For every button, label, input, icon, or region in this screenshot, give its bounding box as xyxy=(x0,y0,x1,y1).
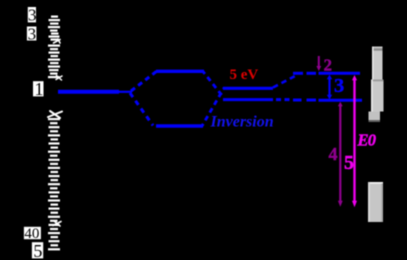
dashed split lower-left xyxy=(130,93,153,126)
svg-text:3: 3 xyxy=(28,24,36,43)
arrow 2->upper level (dark magenta) xyxy=(316,56,321,71)
svg-text:5 eV: 5 eV xyxy=(230,67,259,83)
gray slider bar top cap xyxy=(372,47,383,80)
dashed cross ascending xyxy=(202,88,224,126)
dashed cross descending xyxy=(203,72,224,99)
svg-text:E0: E0 xyxy=(357,130,376,149)
axis break mark small arrow y41 xyxy=(54,39,61,43)
svg-text:40: 40 xyxy=(24,226,39,242)
axis break mark big X y114 xyxy=(48,111,62,118)
gray block bottom xyxy=(368,182,383,222)
svg-text:3: 3 xyxy=(334,75,344,97)
svg-text:5: 5 xyxy=(33,241,42,260)
axis break mark x y223 xyxy=(53,221,61,226)
upper level line xyxy=(156,70,204,73)
svg-text:3: 3 xyxy=(28,6,37,25)
svg-text:1: 1 xyxy=(35,79,44,99)
boxed label 3 (second) xyxy=(27,24,37,43)
level E1 main line xyxy=(58,90,132,94)
lower level line xyxy=(156,124,203,127)
gray slider bar middle xyxy=(371,80,384,112)
upper branch after crossing xyxy=(223,87,273,90)
svg-text:4: 4 xyxy=(329,144,338,164)
axis break mark x y78 xyxy=(56,76,62,81)
lower branch after crossing xyxy=(223,98,362,102)
axis ruler ticks xyxy=(48,16,60,251)
long arrow 4 from lower level down (dark magenta) xyxy=(338,102,343,207)
gray slider bar bottom knob xyxy=(369,112,381,123)
double arrow 3 between levels (blue) xyxy=(327,75,332,100)
long arrow 5 from upper level down (magenta) xyxy=(352,75,357,207)
dashed rise to upper right level xyxy=(273,75,298,88)
boxed label 1 xyxy=(33,79,44,99)
boxed label 40 xyxy=(24,226,41,242)
upper right level dashes xyxy=(293,72,360,75)
svg-text:2: 2 xyxy=(324,56,333,75)
svg-text:Inversion: Inversion xyxy=(210,114,274,131)
dashed split upper-left xyxy=(131,71,157,91)
boxed label 5 (bottom) xyxy=(32,241,43,260)
boxed label 3 (top) xyxy=(28,6,37,25)
svg-text:5: 5 xyxy=(344,152,354,174)
